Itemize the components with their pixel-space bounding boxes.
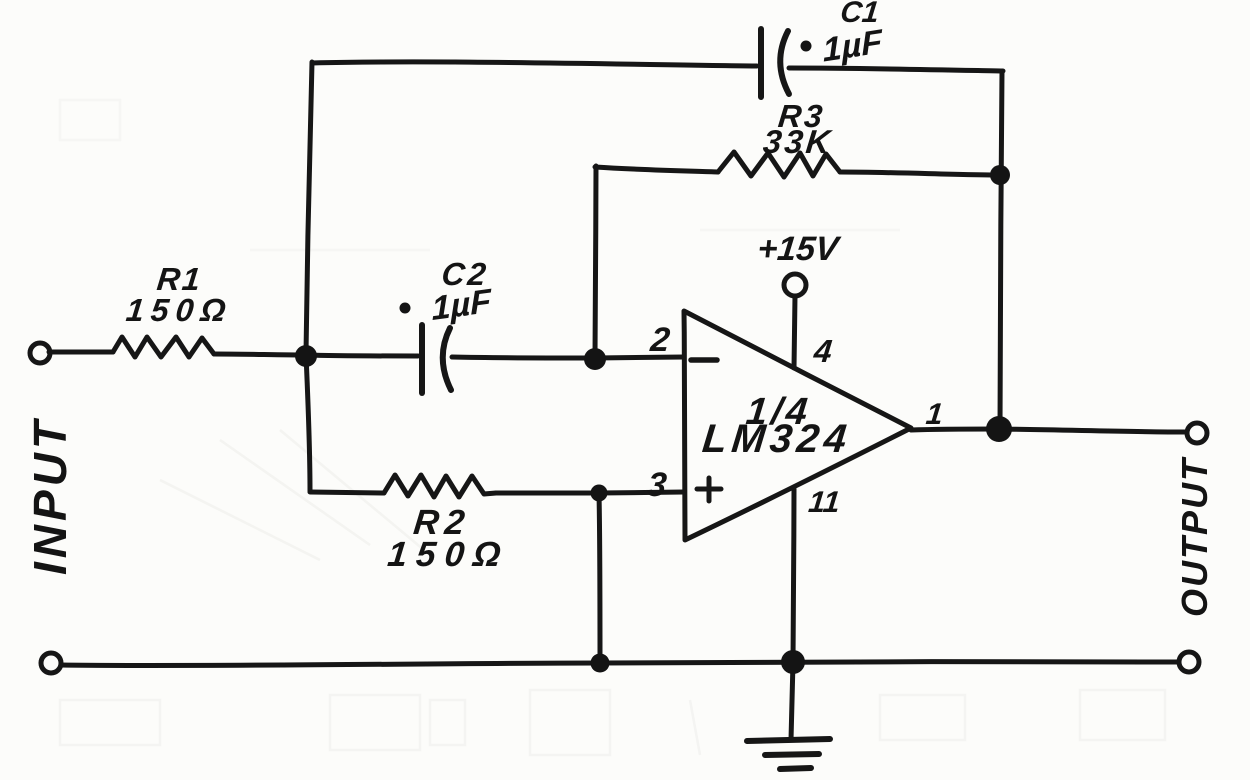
wire: right vertical from top wire down to output node [1000,71,1002,429]
faint paper ghost marks (decorative) [60,690,1165,755]
capacitor C1 left plate [758,29,764,97]
terminal: output top [1187,423,1207,443]
capacitor C1 right plate (curved) [780,31,789,94]
junction R3/right vertical [990,165,1010,185]
wire: R1 to node A [214,354,306,355]
dot of .1uF (C1) [801,41,812,52]
junction node 2 (C2/R3/pin2) [584,348,606,370]
svg-text:1µF: 1µF [822,23,885,70]
svg-text:33K: 33K [761,124,834,161]
wire: output node to output terminal [999,429,1187,432]
junction node 3 (R2/pin3) [591,485,608,502]
op-amp plus sign (pin 3) [697,478,721,501]
wire: node 3 to op-amp pin 3 [599,492,684,493]
terminal: output bottom [1179,652,1199,672]
capacitor C2 right plate (curved) [443,328,451,390]
wire: op-amp output to node [911,429,999,430]
svg-text:150Ω: 150Ω [124,292,234,328]
junction bottom rail / node 3 branch [591,654,610,673]
resistor R3 zigzag [718,152,840,177]
wire: R2 left horizontal [310,492,384,493]
svg-text:OUTPUT: OUTPUT [1174,456,1215,617]
wire: R3 right horizontal to node [840,172,1000,175]
capacitor C2 left plate [419,325,425,393]
dot of .1uF (C2) [400,303,411,314]
terminal: input bottom [41,653,61,673]
wire: R2 to node 3 [496,491,599,496]
svg-text:LM324: LM324 [700,417,853,461]
svg-text:2: 2 [648,321,672,359]
wire: R3 left horizontal [595,167,718,172]
wire: C2 to node 2 [452,357,595,358]
wire: input to R1 [49,350,113,355]
wire: R3 branch vertical (node 2 up to R3) [595,166,596,356]
svg-text:+15V: +15V [756,230,844,268]
wire: op-amp pin 11 down to bottom rail [793,489,794,662]
op-amp U1 triangle [684,311,911,540]
resistor R2 zigzag [384,475,496,497]
svg-text:150Ω: 150Ω [386,535,512,574]
op-amp minus sign (pin 2) [691,357,717,363]
wire: top horizontal left segment to C1 [312,62,757,66]
wire: bottom rail [61,662,1179,666]
terminal: input top [30,343,50,363]
ground symbol [747,739,830,769]
svg-text:1µF: 1µF [431,282,493,328]
svg-text:1: 1 [924,398,944,431]
terminal: +15V [784,274,806,296]
svg-text:3: 3 [646,466,669,504]
svg-text:4: 4 [811,333,834,369]
junction node A (R1/C2/feedback) [295,345,317,367]
junction bottom rail / ground branch [781,650,805,674]
junction output node [986,416,1012,442]
wire: node 2 to op-amp pin 2 [595,357,684,358]
svg-text:INPUT: INPUT [24,417,76,575]
wire: node 3 down to bottom rail [599,493,600,662]
wire: node A down to R2 [306,355,310,491]
svg-text:11: 11 [807,486,842,519]
wire: node A to C2 [306,355,418,356]
wire: top horizontal right segment from C1 [789,68,1003,71]
wire: +15V terminal down to op-amp (pin 4) [794,296,795,368]
wire: feedback loop top-left vertical [306,62,312,353]
resistor R1 zigzag [113,337,214,357]
wire: ground stem [791,662,793,740]
